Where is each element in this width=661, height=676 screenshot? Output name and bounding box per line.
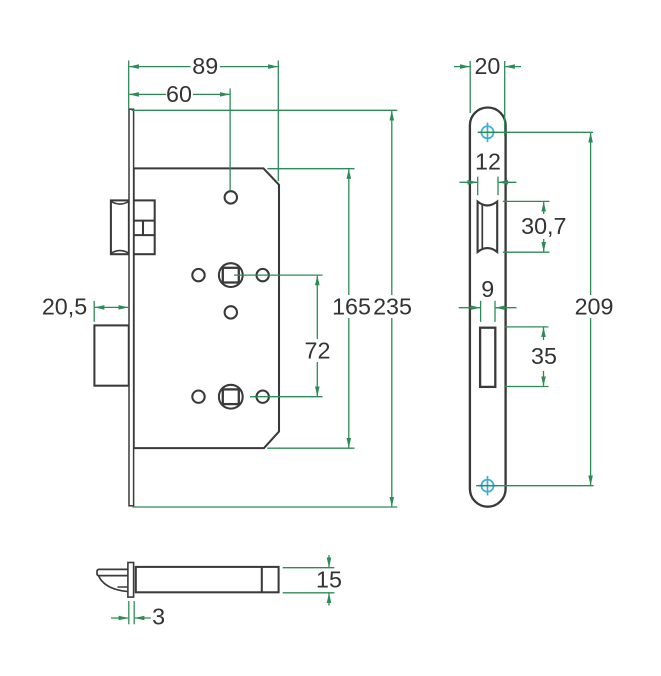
svg-text:72: 72	[305, 337, 331, 363]
dim 35 extension top	[505, 326, 549, 328]
bar end cap line	[261, 567, 263, 592]
latch head top curve	[111, 202, 128, 204]
hole top	[225, 191, 237, 203]
dim 30,7 line top segment	[543, 202, 545, 214]
dim 72 extension top	[234, 274, 323, 276]
dim 209 line bottom segment	[590, 318, 592, 485]
dim 30,7 line bottom segment	[543, 239, 545, 252]
latch tail block	[134, 200, 155, 254]
dim 9 arrow right	[496, 307, 517, 309]
spindle circle top	[219, 263, 243, 287]
dim 89 extension right	[277, 61, 279, 182]
svg-text:89: 89	[192, 53, 218, 79]
dim 35 extension bottom	[505, 386, 549, 388]
svg-text:235: 235	[373, 293, 412, 319]
latch tail detail lines	[134, 220, 155, 222]
dim 15 arrow top	[328, 555, 330, 567]
dim 3 arrow right	[135, 617, 151, 619]
latch tip strip	[97, 569, 128, 575]
dim 12 tick left	[477, 177, 479, 196]
svg-text:60: 60	[166, 81, 192, 107]
latch head bottom curve	[111, 251, 128, 253]
dim 9 arrow left	[459, 307, 480, 309]
dim 209 extension top	[478, 131, 593, 133]
svg-text:12: 12	[475, 149, 501, 175]
hole below spindle	[225, 306, 237, 318]
dim 3 tick left	[128, 601, 130, 624]
faceplate stadium outline	[470, 108, 506, 507]
dim 9 tick left	[480, 301, 482, 322]
bar body	[136, 567, 279, 592]
dim 165 line top segment	[348, 169, 350, 295]
dim 165 line bottom segment	[348, 318, 350, 448]
hole mid (center row) left	[192, 269, 204, 281]
svg-text:35: 35	[531, 343, 557, 369]
dim 20 extension right	[504, 61, 506, 136]
dim 12 arrow right	[499, 181, 517, 183]
dim 165 extension bottom	[267, 447, 354, 449]
lock case body	[134, 168, 279, 448]
svg-text:15: 15	[316, 567, 342, 593]
spindle circle bottom	[219, 385, 243, 409]
dim 89 line right segment	[220, 66, 278, 68]
dim 72 line top segment	[316, 276, 318, 339]
dim 72 line bottom segment	[316, 362, 318, 396]
latch tip underside line	[118, 586, 129, 588]
dim 235 extension top	[132, 109, 398, 111]
dim 9 tick right	[494, 301, 496, 322]
screw symbol bottom	[478, 476, 498, 496]
faceplate cross-section	[128, 563, 134, 598]
dim 3 arrow left	[111, 617, 128, 619]
dim 15 extension bottom	[283, 592, 335, 594]
dim 89 line left segment	[129, 66, 190, 68]
dim 30,7 extension bottom	[503, 251, 550, 253]
dim 12 tick right	[497, 177, 499, 196]
dim 15 arrow bottom	[328, 593, 330, 605]
bottom row right	[257, 391, 269, 403]
dim 30,7 extension top	[503, 200, 550, 202]
dim 20 arrow right	[505, 66, 521, 68]
latch opening (spool shape)	[478, 202, 498, 252]
dim 60 line right segment	[193, 93, 230, 95]
faceplate strip (front view)	[129, 109, 134, 506]
dim 165 extension top	[267, 168, 354, 170]
dim 3 tick right	[133, 601, 135, 624]
dim 20 extension left	[469, 61, 471, 113]
spindle square bottom	[223, 389, 239, 404]
svg-text:165: 165	[332, 293, 371, 319]
dim 20 arrow left	[454, 66, 470, 68]
dim 35 line top segment	[543, 328, 545, 341]
dim 235 line bottom segment	[391, 318, 393, 506]
dim 35 line bottom segment	[543, 371, 545, 386]
svg-text:209: 209	[575, 293, 614, 319]
spindle square top	[223, 268, 239, 283]
dim 20,5 extension	[93, 301, 95, 322]
svg-text:9: 9	[481, 276, 494, 302]
screw symbol top	[478, 123, 498, 143]
latch bolt head	[111, 200, 129, 254]
bottom row left	[192, 391, 204, 403]
dim 209 line top segment	[590, 133, 592, 295]
dim 60 line left segment	[129, 93, 166, 95]
svg-text:3: 3	[152, 603, 165, 629]
latch tip bevel curve	[99, 576, 129, 592]
svg-text:30,7: 30,7	[521, 213, 566, 239]
dim 12 arrow left	[459, 181, 477, 183]
dim 15 extension top	[283, 567, 335, 569]
svg-text:20: 20	[474, 53, 500, 79]
dim 60 extension right	[229, 89, 231, 191]
dim 20,5 arrow line	[95, 306, 112, 308]
dim 209 extension bottom	[476, 485, 593, 487]
dim 89 extension left	[128, 61, 130, 109]
deadbolt opening	[480, 328, 495, 387]
dim 235 line top segment	[391, 111, 393, 295]
deadbolt head	[94, 325, 128, 385]
dim 72 extension bottom	[250, 396, 323, 398]
hole mid right	[257, 269, 269, 281]
dim 235 extension bottom	[133, 506, 398, 508]
svg-text:20,5: 20,5	[42, 293, 87, 319]
